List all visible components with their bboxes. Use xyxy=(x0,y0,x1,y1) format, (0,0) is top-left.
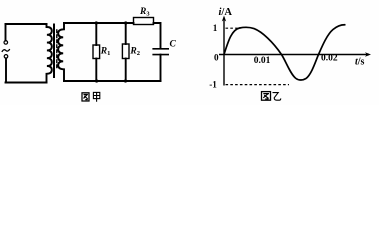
wire primary left upper xyxy=(5,24,7,41)
wire primary bottom xyxy=(6,82,47,84)
AC source terminal lower xyxy=(4,55,8,59)
wire R1 branch lower xyxy=(95,59,97,82)
y axis xyxy=(223,18,225,86)
junction bottom R2 xyxy=(124,79,127,82)
svg-text:0.01: 0.01 xyxy=(254,56,271,66)
transformer core dashed line xyxy=(56,30,58,70)
transformer core solid line xyxy=(53,25,55,78)
junction bottom R1 xyxy=(95,79,98,82)
transformer secondary coil xyxy=(58,23,64,81)
caption 图乙 : 图 glyph xyxy=(262,92,271,101)
transformer primary coil xyxy=(47,24,52,83)
junction top R2 xyxy=(124,21,127,24)
wire R2 branch upper xyxy=(125,23,127,44)
x axis arrowhead xyxy=(365,52,371,56)
AC source tilde symbol xyxy=(2,50,9,52)
svg-text:C: C xyxy=(170,40,177,50)
caption 图甲 : 图 glyph xyxy=(82,93,89,101)
capacitor C bottom plate xyxy=(153,54,168,56)
x axis xyxy=(219,54,369,56)
svg-text:0: 0 xyxy=(214,53,219,63)
wire primary left lower xyxy=(5,58,7,82)
svg-text:0.02: 0.02 xyxy=(321,53,338,63)
svg-text:i/A: i/A xyxy=(219,7,233,18)
dashed level -1 xyxy=(226,84,290,86)
svg-text:t/s: t/s xyxy=(355,57,365,68)
AC source terminal upper xyxy=(4,41,8,45)
wire capacitor lower xyxy=(160,55,162,81)
wire R1 branch upper xyxy=(95,23,97,45)
svg-text:1: 1 xyxy=(213,23,218,33)
dashed level +1 xyxy=(226,27,241,29)
resistor R1 xyxy=(93,45,100,59)
capacitor C top plate xyxy=(153,48,168,50)
caption 图乙 : 乙 glyph xyxy=(273,93,281,101)
resistor R3 xyxy=(134,18,154,25)
wire R3 to right corner xyxy=(154,23,161,48)
y axis arrowhead xyxy=(222,16,226,22)
wire R2 branch lower xyxy=(125,59,127,82)
wire secondary top xyxy=(64,22,134,24)
caption 图甲 : 甲 glyph xyxy=(93,92,99,101)
junction top R1 xyxy=(95,21,98,24)
resistor R2 xyxy=(122,44,129,59)
current sine curve xyxy=(224,25,346,80)
svg-text:-1: -1 xyxy=(209,79,217,89)
wire primary top xyxy=(6,23,47,25)
wire secondary bottom xyxy=(64,80,161,82)
